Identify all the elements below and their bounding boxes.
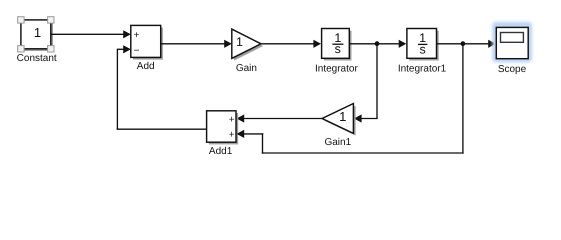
junction node after Integrator (375, 41, 380, 46)
block Scope (highlighted) (492, 22, 532, 75)
svg-text:1: 1 (339, 109, 346, 124)
junction node after Integrator1 (461, 41, 466, 46)
svg-text:+: + (229, 115, 235, 126)
svg-text:Add: Add (137, 61, 155, 72)
svg-text:Integrator1: Integrator1 (398, 63, 447, 74)
wire Gain to Integrator (261, 40, 321, 48)
block Gain1 (left-pointing triangle) (322, 104, 356, 149)
block Add1 (mirrored sum) (207, 111, 239, 157)
svg-text:s: s (335, 42, 341, 56)
svg-text:1: 1 (236, 35, 243, 49)
wire Integrator1 to Scope (437, 40, 496, 48)
svg-text:s: s (419, 42, 425, 56)
svg-text:Scope: Scope (498, 64, 527, 75)
svg-text:+: + (134, 30, 140, 41)
wire Integrator1 junction down, around to Add1 bottom input (237, 44, 464, 154)
block Integrator1 (1/s) (398, 29, 447, 75)
block Add (sum) (131, 25, 163, 72)
svg-text:Gain: Gain (236, 63, 257, 74)
wire Constant to Add plus input (51, 30, 131, 38)
svg-text:1: 1 (34, 25, 41, 40)
svg-text:−: − (134, 45, 140, 56)
block Constant (selected) (17, 17, 57, 64)
block Integrator (1/s) (315, 29, 358, 75)
wire junction down to Gain1 input (354, 44, 378, 123)
svg-text:Integrator: Integrator (315, 63, 358, 74)
wire Gain1 to Add1 top input (237, 114, 323, 122)
svg-text:Add1: Add1 (209, 146, 233, 157)
svg-text:Gain1: Gain1 (324, 137, 351, 148)
svg-text:Constant: Constant (17, 53, 57, 64)
wire Add1 output left and up to Add minus input (117, 45, 207, 130)
wire Integrator to Integrator1 (349, 40, 406, 48)
block Gain (triangle) (232, 29, 263, 74)
wire Add to Gain (161, 40, 232, 48)
svg-text:+: + (229, 130, 235, 141)
